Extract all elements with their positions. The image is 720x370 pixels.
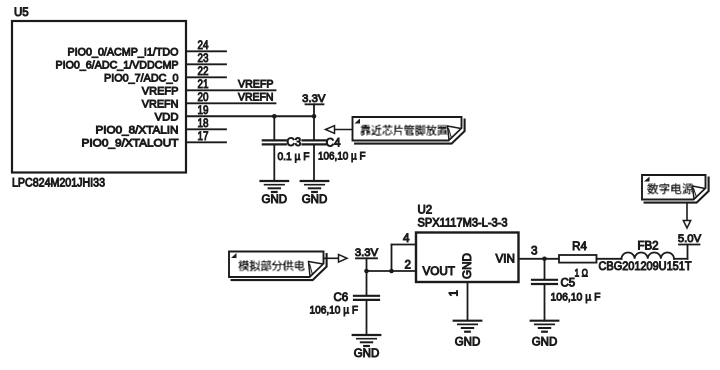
svg-text:1 Ω: 1 Ω bbox=[575, 268, 589, 280]
svg-text:0.1 µ F: 0.1 µ F bbox=[278, 151, 310, 163]
svg-text:GND: GND bbox=[354, 348, 380, 360]
svg-text:GND: GND bbox=[262, 194, 288, 206]
svg-text:106,10 µ F: 106,10 µ F bbox=[318, 150, 366, 162]
svg-text:FB2: FB2 bbox=[637, 240, 658, 252]
svg-text:3.3V: 3.3V bbox=[355, 247, 379, 259]
svg-text:24: 24 bbox=[198, 39, 209, 52]
svg-text:23: 23 bbox=[198, 52, 209, 65]
svg-text:PIO0_9/XTALOUT: PIO0_9/XTALOUT bbox=[82, 137, 179, 149]
svg-text:C4: C4 bbox=[326, 138, 341, 150]
svg-text:GND: GND bbox=[461, 253, 474, 279]
svg-text:106,10 µ F: 106,10 µ F bbox=[310, 305, 359, 317]
svg-text:C3: C3 bbox=[287, 137, 302, 149]
svg-text:VREFP: VREFP bbox=[238, 78, 274, 90]
svg-text:3: 3 bbox=[531, 245, 538, 258]
svg-text:SPX1117M3-L-3-3: SPX1117M3-L-3-3 bbox=[418, 218, 508, 230]
svg-text:C6: C6 bbox=[334, 292, 349, 304]
svg-text:U2: U2 bbox=[418, 205, 433, 217]
svg-text:19: 19 bbox=[198, 104, 209, 117]
svg-text:3.3V: 3.3V bbox=[302, 93, 326, 105]
svg-text:R4: R4 bbox=[572, 241, 587, 253]
svg-text:GND: GND bbox=[302, 194, 328, 206]
svg-text:22: 22 bbox=[198, 65, 209, 78]
svg-text:C5: C5 bbox=[561, 277, 576, 289]
svg-text:GND: GND bbox=[455, 337, 481, 349]
svg-text:2: 2 bbox=[405, 258, 412, 271]
svg-text:PIO0_8/XTALIN: PIO0_8/XTALIN bbox=[96, 124, 179, 136]
svg-text:CBG201209U151T: CBG201209U151T bbox=[599, 261, 692, 273]
svg-text:18: 18 bbox=[198, 117, 209, 130]
svg-text:5.0V: 5.0V bbox=[678, 233, 702, 245]
svg-text:VREFN: VREFN bbox=[238, 91, 274, 103]
svg-text:VREFN: VREFN bbox=[142, 98, 179, 110]
svg-text:20: 20 bbox=[198, 91, 209, 104]
svg-text:U5: U5 bbox=[14, 7, 29, 19]
svg-text:17: 17 bbox=[198, 130, 209, 143]
svg-text:4: 4 bbox=[403, 232, 410, 245]
svg-text:VREFP: VREFP bbox=[142, 85, 179, 97]
svg-text:VDD: VDD bbox=[155, 111, 179, 123]
svg-text:PIO0_6/ADC_1/VDDCMP: PIO0_6/ADC_1/VDDCMP bbox=[56, 59, 179, 71]
svg-text:VOUT: VOUT bbox=[423, 265, 455, 278]
svg-text:106,10 µ F: 106,10 µ F bbox=[551, 292, 601, 304]
svg-text:LPC824M201JHI33: LPC824M201JHI33 bbox=[12, 178, 105, 190]
svg-text:GND: GND bbox=[532, 337, 558, 349]
svg-text:PIO0_7/ADC_0: PIO0_7/ADC_0 bbox=[104, 72, 179, 84]
svg-text:1: 1 bbox=[448, 290, 461, 297]
svg-text:21: 21 bbox=[198, 78, 209, 91]
svg-text:PIO0_0/ACMP_I1/TDO: PIO0_0/ACMP_I1/TDO bbox=[68, 46, 179, 58]
svg-text:VIN: VIN bbox=[496, 253, 515, 266]
